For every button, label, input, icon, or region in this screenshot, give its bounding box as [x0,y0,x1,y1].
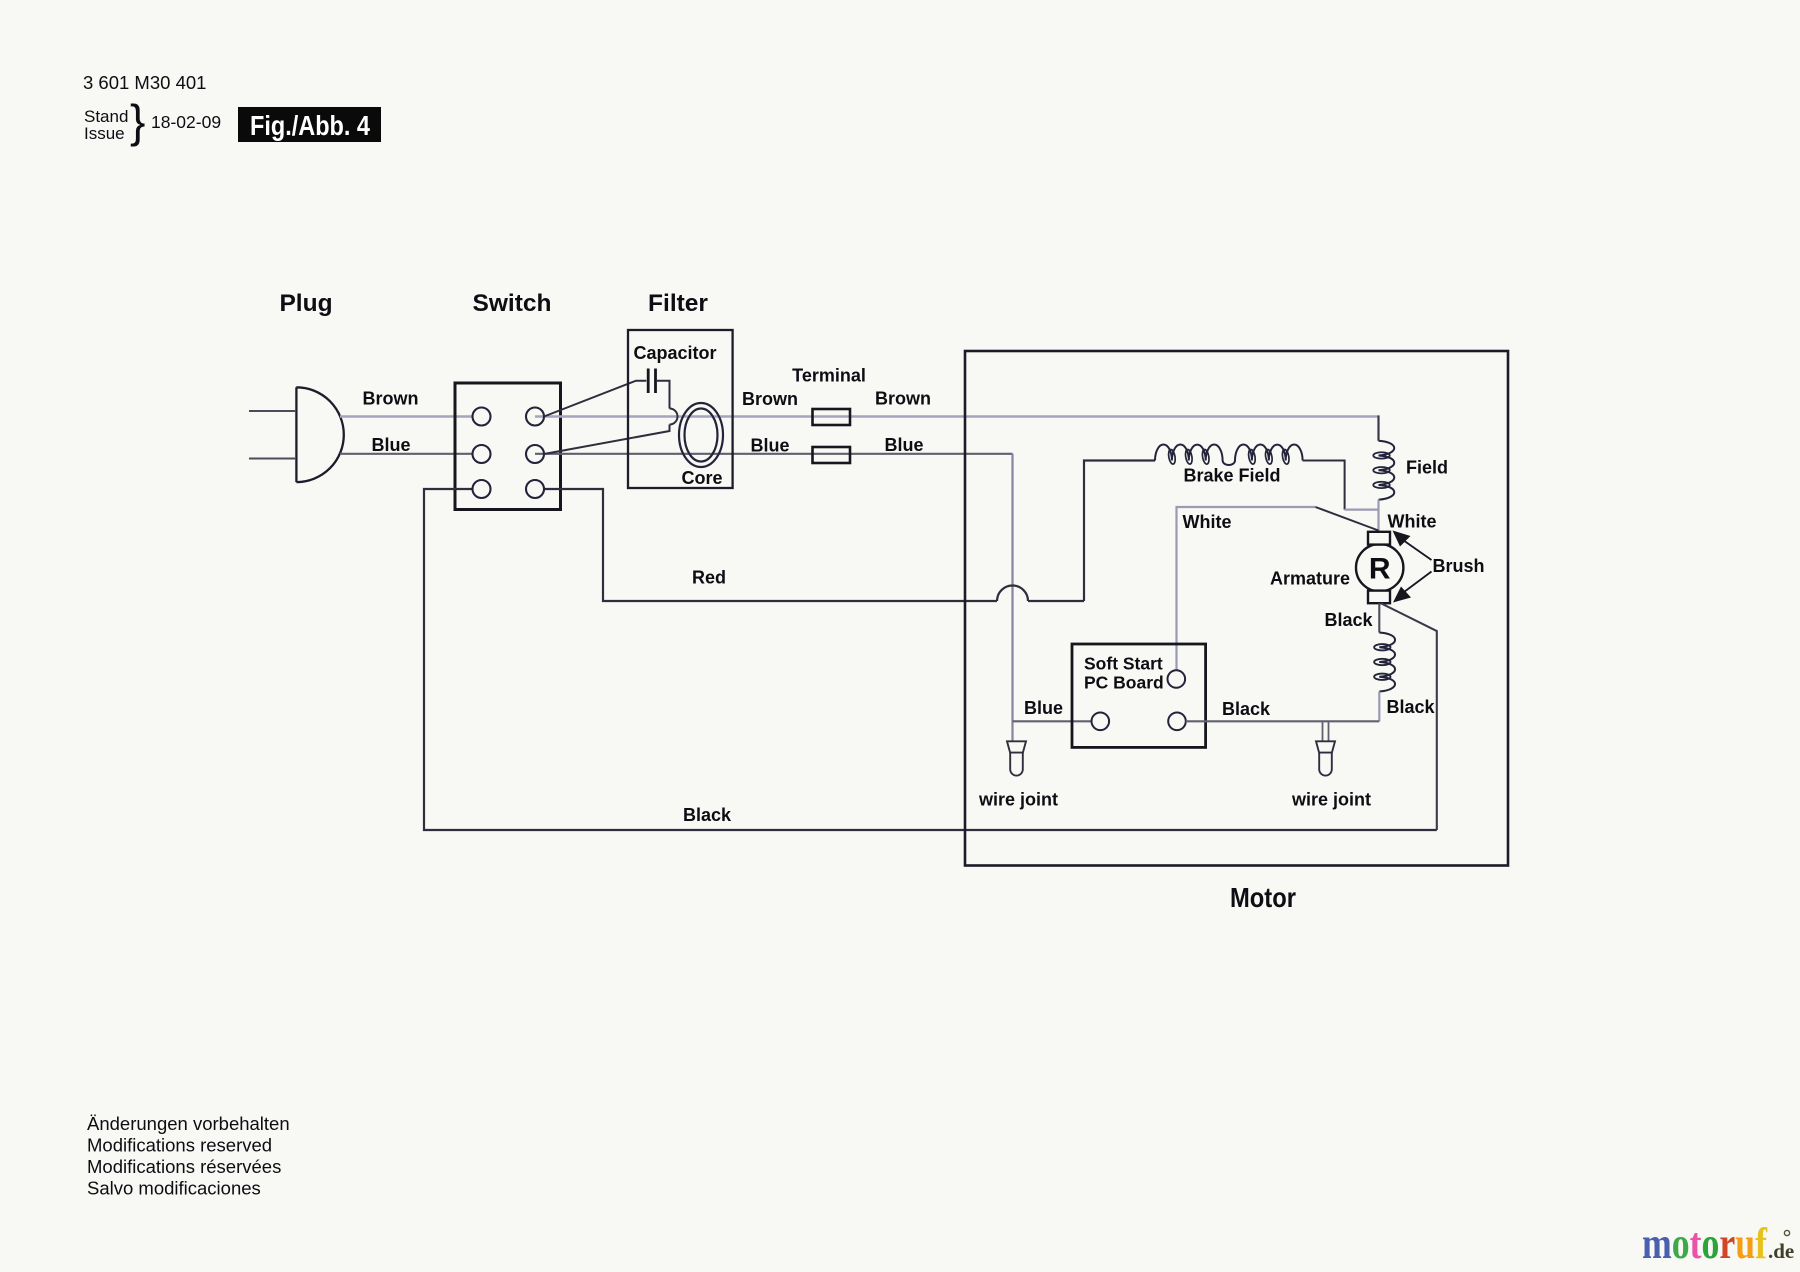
wire red: switch to brake field junction [544,489,1084,601]
wire field coil to armature [1377,500,1379,532]
wire blue: switch to down-elbow [535,453,1013,455]
terminal fuse 1 [813,409,851,425]
brush terminal bottom [1368,591,1390,604]
svg-text:Blue: Blue [750,436,789,456]
switch contact circles [473,408,491,426]
armature circle R [1356,544,1403,591]
svg-text:White: White [1388,512,1437,532]
svg-text:Modifications réservées: Modifications réservées [87,1156,281,1177]
svg-text:Plug: Plug [279,290,332,317]
svg-text:motoruf: motoruf [1642,1219,1768,1268]
svg-text:.de: .de [1768,1239,1794,1263]
svg-text:Capacitor: Capacitor [633,343,716,363]
switch box [455,383,561,510]
svg-text:Black: Black [1386,697,1435,717]
svg-text:Blue: Blue [884,435,923,455]
black coil [1379,633,1395,692]
core double ellipse [679,403,723,467]
filter box [628,330,733,488]
wire blue: plug to switch [340,453,473,455]
wire brown corner down to field coil [1377,417,1378,441]
wire brown: plug to switch [340,415,473,417]
svg-text:Armature: Armature [1270,569,1350,589]
svg-text:Black: Black [1324,610,1373,630]
pc board terminal bottom right [1168,713,1186,731]
svg-text:Filter: Filter [648,290,708,317]
svg-text:PC Board: PC Board [1084,673,1164,693]
svg-text:Soft Start: Soft Start [1084,654,1163,674]
wire joint 2 leads [1323,721,1329,741]
svg-text:wire joint: wire joint [1291,790,1371,810]
svg-text:Fig./Abb. 4: Fig./Abb. 4 [250,110,370,141]
svg-text:Red: Red [692,568,726,588]
svg-text:Brake Field: Brake Field [1183,466,1280,486]
wire blue branch to PC board [1013,720,1092,722]
wire joint right [1316,741,1335,775]
wire brown: switch to field (long top run) [535,415,1377,417]
wire joint left [1007,741,1026,775]
plug symbol [296,387,343,482]
svg-text:Modifications reserved: Modifications reserved [87,1135,272,1156]
svg-text:Black: Black [683,805,732,825]
pc board terminal bottom left [1092,713,1110,731]
svg-text:Änderungen vorbehalten: Änderungen vorbehalten [87,1113,290,1134]
plug prong bottom [249,457,296,459]
brush terminal top [1368,532,1390,545]
wire armature diagonal to right down [1381,603,1437,830]
wire diagonal switch to capacitor left [544,381,646,417]
svg-text:Salvo modificaciones: Salvo modificaciones [87,1178,261,1199]
wire white diagonal to armature node [1316,507,1379,531]
terminal fuse 2 [813,447,851,463]
svg-text:Brown: Brown [363,389,419,409]
Fig./Abb. 4 black box [238,107,381,142]
svg-text:18-02-09: 18-02-09 [151,112,221,132]
svg-text:wire joint: wire joint [978,790,1058,810]
svg-text:}: } [130,95,145,147]
svg-text:Blue: Blue [371,435,410,455]
svg-text:Field: Field [1406,458,1448,478]
wire armature bottom to black coil [1378,603,1380,632]
svg-text:Brown: Brown [875,389,931,409]
svg-text:Black: Black [1222,699,1271,719]
svg-text:R: R [1369,553,1391,586]
field coil [1379,441,1395,500]
svg-text:White: White [1183,512,1232,532]
svg-text:Brown: Brown [742,389,798,409]
wire black coil to pc board run [1378,692,1380,722]
brush arrow bottom [1400,572,1432,596]
svg-text:3 601 M30 401: 3 601 M30 401 [83,72,206,93]
wire red-to-brake-field vertical [1084,461,1155,602]
svg-text:Issue: Issue [84,124,125,143]
svg-text:Brush: Brush [1432,556,1484,576]
wire brake field to white node [1345,509,1379,511]
capacitor plates [647,369,650,394]
brush arrow top [1398,537,1432,561]
wire diagonal switch to capacitor right with hop over brown [544,381,670,454]
pc board terminal top right [1168,670,1186,688]
wire black: switch bottom-left down and across [424,489,1437,830]
svg-text:Core: Core [681,468,722,488]
svg-text:Switch: Switch [473,290,552,317]
red wire hop over blue [997,586,1028,602]
wire brake field right leg [1303,461,1345,510]
svg-text:Motor: Motor [1230,882,1296,913]
brake field coil [1155,444,1303,465]
svg-text:Terminal: Terminal [792,366,866,386]
wire black pc board to coil [1186,720,1380,722]
svg-text:Blue: Blue [1024,698,1063,718]
wire white: vertical to PC board and across [1177,507,1316,671]
motoruf.de logo [1642,1219,1794,1268]
soft start pc board box [1072,644,1206,747]
wire blue vertical to wire joint [1011,454,1013,742]
plug prong top [249,410,296,412]
motor box [965,351,1508,866]
